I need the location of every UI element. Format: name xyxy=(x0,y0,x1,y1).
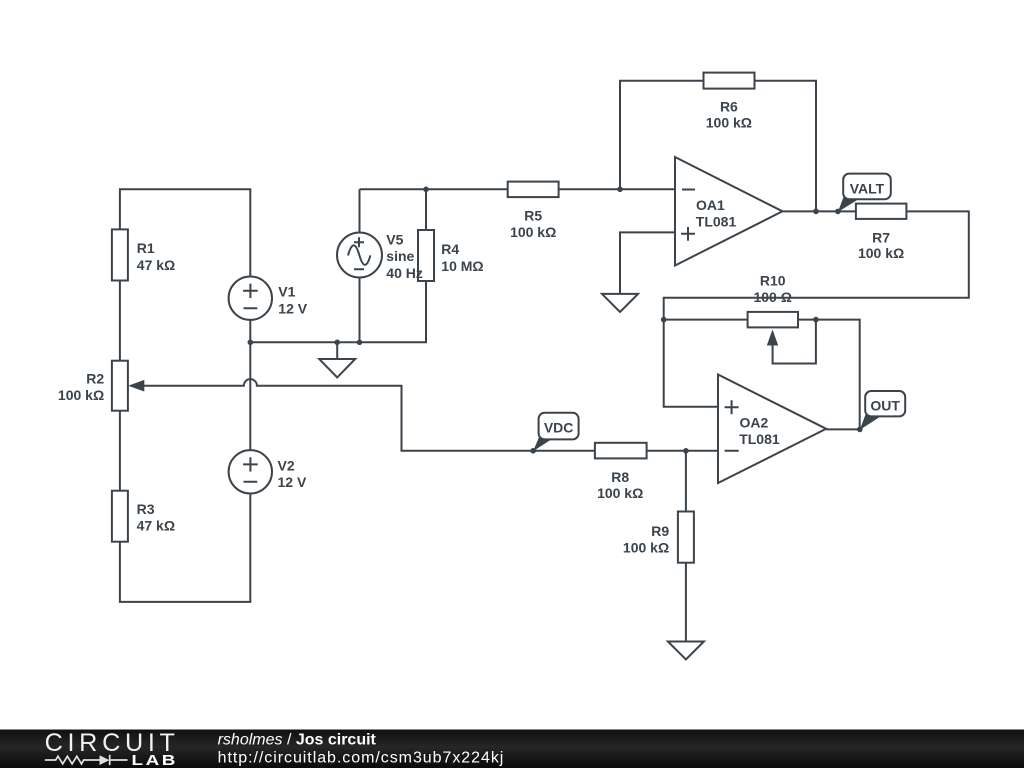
svg-text:12 V: 12 V xyxy=(278,301,307,317)
svg-text:R6: R6 xyxy=(720,99,738,115)
svg-text:R9: R9 xyxy=(651,523,669,539)
svg-text:10 MΩ: 10 MΩ xyxy=(441,258,483,274)
svg-text:OA1: OA1 xyxy=(696,197,725,213)
svg-text:47 kΩ: 47 kΩ xyxy=(137,517,175,533)
svg-text:VDC: VDC xyxy=(544,419,574,435)
svg-text:100 kΩ: 100 kΩ xyxy=(858,245,904,261)
svg-text:40 Hz: 40 Hz xyxy=(386,265,423,281)
svg-text:100 kΩ: 100 kΩ xyxy=(58,387,104,403)
svg-text:V5: V5 xyxy=(386,231,403,247)
svg-text:100 kΩ: 100 kΩ xyxy=(623,540,669,556)
svg-text:R4: R4 xyxy=(441,241,459,257)
svg-text:http://circuitlab.com/csm3ub7x: http://circuitlab.com/csm3ub7x224kj xyxy=(218,749,505,766)
svg-text:100 kΩ: 100 kΩ xyxy=(706,114,752,130)
svg-text:TL081: TL081 xyxy=(696,213,737,229)
svg-text:R8: R8 xyxy=(611,469,629,485)
svg-text:100 Ω: 100 Ω xyxy=(753,289,791,305)
svg-text:100 kΩ: 100 kΩ xyxy=(510,224,556,240)
svg-text:V2: V2 xyxy=(278,458,295,474)
svg-text:R7: R7 xyxy=(872,229,890,245)
svg-text:OUT: OUT xyxy=(870,398,900,414)
svg-text:VALT: VALT xyxy=(850,180,885,196)
svg-text:sine: sine xyxy=(386,248,414,264)
svg-text:LAB: LAB xyxy=(132,752,179,768)
svg-text:R3: R3 xyxy=(137,501,155,517)
svg-text:R2: R2 xyxy=(86,371,104,387)
svg-text:R1: R1 xyxy=(137,240,155,256)
svg-text:47 kΩ: 47 kΩ xyxy=(137,257,175,273)
svg-text:rsholmes / Jos circuit: rsholmes / Jos circuit xyxy=(218,732,377,749)
svg-text:V1: V1 xyxy=(278,283,295,299)
svg-text:OA2: OA2 xyxy=(740,415,769,431)
svg-text:R5: R5 xyxy=(524,208,542,224)
svg-text:12 V: 12 V xyxy=(278,474,307,490)
svg-text:TL081: TL081 xyxy=(739,431,780,447)
svg-text:100 kΩ: 100 kΩ xyxy=(597,485,643,501)
svg-text:R10: R10 xyxy=(760,273,786,289)
